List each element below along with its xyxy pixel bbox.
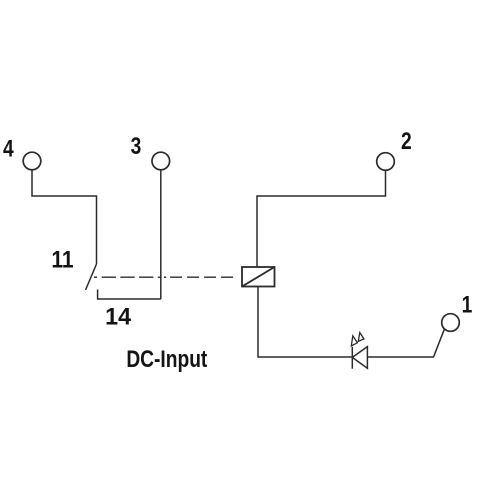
- terminal 2: [377, 153, 395, 171]
- NO contact blade 11: [86, 264, 97, 290]
- terminal 3: [152, 152, 170, 170]
- actuation dashed link left part: [102, 276, 162, 278]
- LED D1: [352, 347, 367, 369]
- svg-text:1: 1: [462, 290, 473, 318]
- svg-text:4: 4: [3, 134, 14, 162]
- LED light arrow 1: [351, 336, 357, 346]
- LED light arrow 2: [358, 333, 364, 342]
- actuation dashed link right part: [170, 276, 235, 278]
- wire LED to terminal 1: [367, 329, 444, 357]
- terminal 1: [442, 314, 460, 332]
- relay coil K1: [242, 267, 275, 287]
- svg-text:14: 14: [105, 304, 132, 330]
- svg-text:3: 3: [131, 132, 142, 160]
- svg-text:11: 11: [51, 246, 73, 273]
- wire terminal 3 to contact 14: [160, 170, 162, 299]
- wire terminal 4 to contact 11: [32, 170, 97, 264]
- wire coil bottom to LED: [258, 287, 352, 358]
- svg-text:DC-Input: DC-Input: [126, 345, 207, 373]
- contact 14 fixed terminal: [98, 290, 161, 300]
- terminal 4: [23, 152, 41, 170]
- wire terminal 2 to coil top: [257, 170, 386, 267]
- svg-text:2: 2: [401, 127, 412, 155]
- actuation dashed link dot: [164, 276, 166, 278]
- actuation dashed link start stub: [94, 276, 97, 278]
